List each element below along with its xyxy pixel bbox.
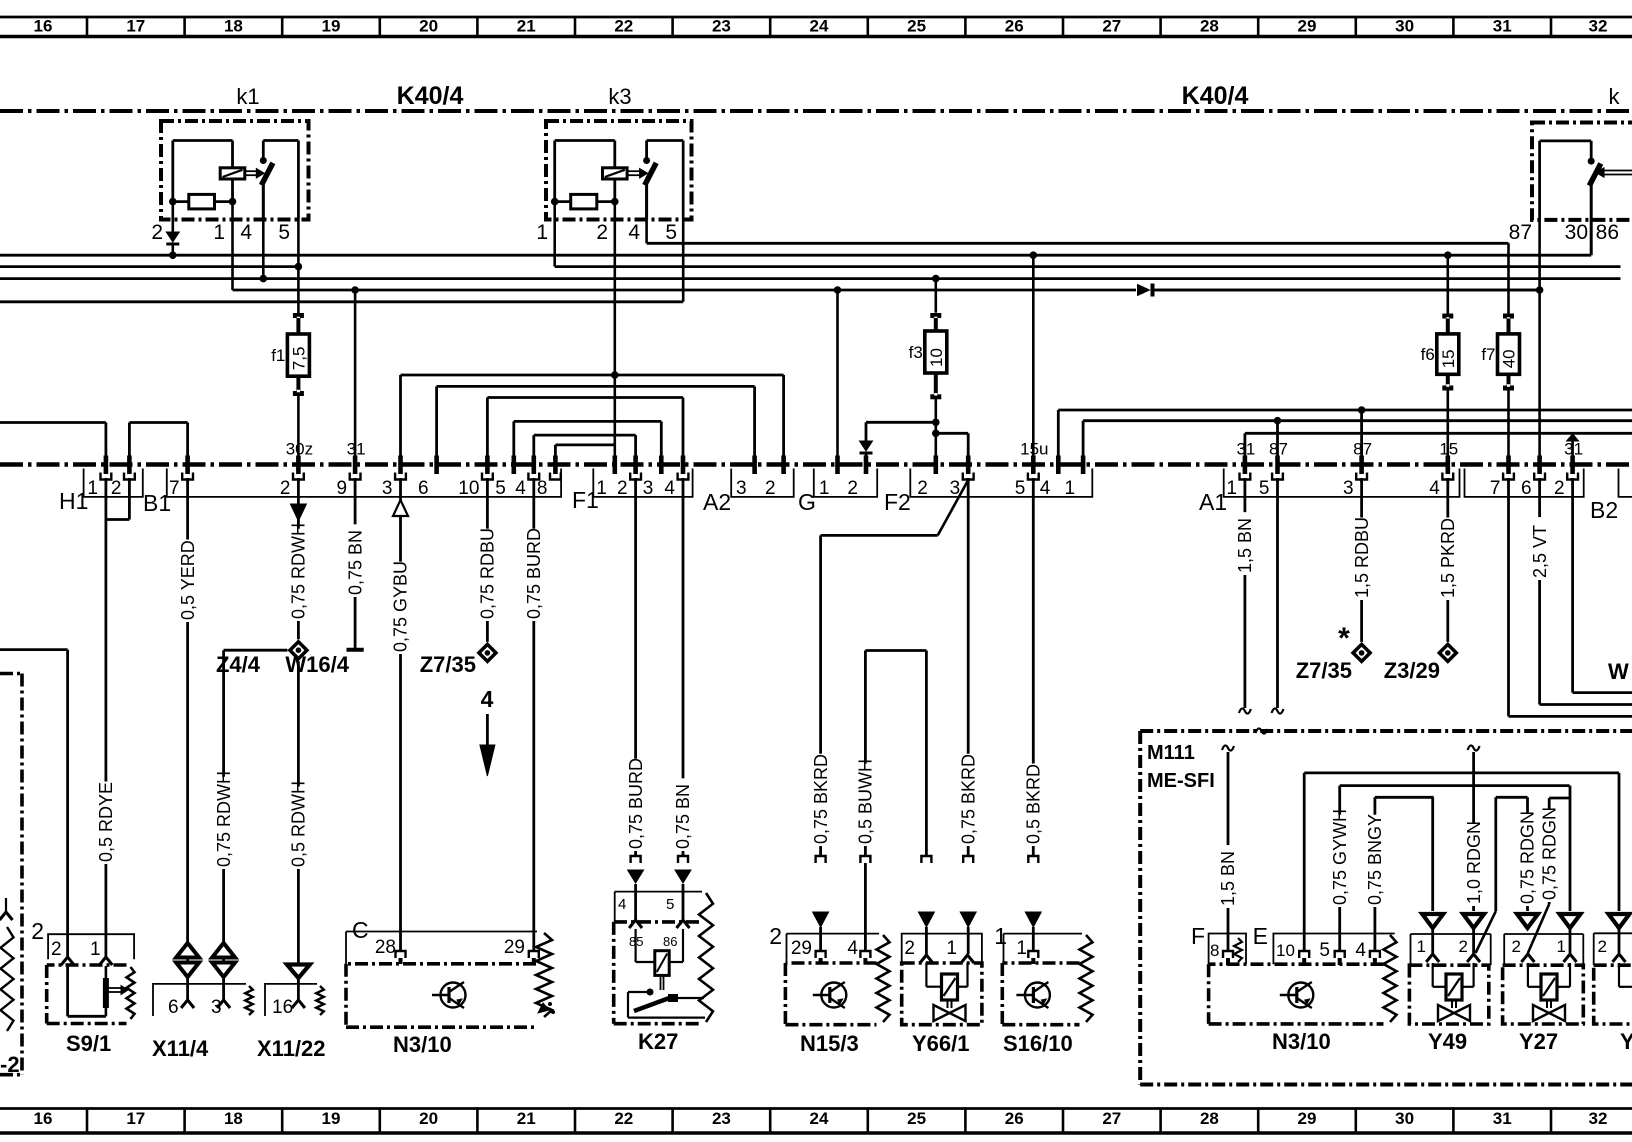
svg-text:B1: B1 [143, 490, 171, 516]
svg-text:H1: H1 [59, 488, 88, 514]
svg-text:4: 4 [618, 896, 626, 913]
svg-text:24: 24 [810, 17, 829, 36]
svg-text:S9/1: S9/1 [66, 1031, 111, 1056]
svg-text:15: 15 [1439, 349, 1458, 368]
svg-text:2: 2 [904, 938, 915, 959]
svg-text:30: 30 [1395, 17, 1414, 36]
svg-text:2: 2 [1554, 478, 1565, 499]
svg-text:0,5 RDWH: 0,5 RDWH [289, 781, 309, 867]
svg-text:1: 1 [1417, 937, 1426, 956]
svg-text:20: 20 [419, 17, 438, 36]
svg-text:3: 3 [382, 478, 393, 499]
svg-text:F2: F2 [884, 489, 911, 515]
svg-text:16: 16 [272, 997, 293, 1018]
svg-text:0,5 BUWH: 0,5 BUWH [856, 759, 876, 844]
svg-text:0,75 BNGY: 0,75 BNGY [1365, 814, 1385, 905]
svg-text:N3/10: N3/10 [393, 1032, 452, 1057]
svg-text:1: 1 [213, 221, 225, 244]
svg-text:7: 7 [1490, 478, 1501, 499]
svg-text:5: 5 [1259, 478, 1270, 499]
svg-text:4: 4 [847, 938, 858, 959]
svg-text:1: 1 [819, 478, 830, 499]
svg-text:10: 10 [458, 478, 479, 499]
svg-text:Z3/29: Z3/29 [1384, 658, 1440, 683]
svg-text:Y: Y [1620, 1029, 1632, 1054]
svg-text:5: 5 [1015, 478, 1026, 499]
svg-text:6: 6 [168, 997, 179, 1018]
svg-text:3: 3 [736, 478, 747, 499]
svg-text:3: 3 [643, 478, 654, 499]
svg-text:2: 2 [917, 478, 928, 499]
svg-text:1: 1 [536, 221, 548, 244]
svg-text:25: 25 [907, 17, 926, 36]
svg-text:2,5 VT: 2,5 VT [1530, 525, 1550, 578]
svg-text:22: 22 [614, 17, 633, 36]
svg-text:Y49: Y49 [1428, 1029, 1467, 1054]
svg-text:k1: k1 [236, 84, 259, 109]
svg-text:*: * [1338, 622, 1350, 655]
svg-text:21: 21 [517, 1109, 536, 1128]
svg-text:K40/4: K40/4 [1182, 82, 1249, 110]
svg-text:8: 8 [537, 478, 548, 499]
svg-text:2: 2 [847, 478, 858, 499]
svg-text:5: 5 [495, 478, 506, 499]
svg-text:K40/4: K40/4 [397, 82, 464, 110]
svg-text:A2: A2 [703, 489, 731, 515]
svg-text:0,75 GYWH: 0,75 GYWH [1330, 809, 1350, 905]
svg-text:F1: F1 [572, 487, 599, 513]
svg-text:0,75 RDGN: 0,75 RDGN [1539, 807, 1559, 900]
svg-text:32: 32 [1589, 17, 1608, 36]
svg-text:17: 17 [126, 1109, 145, 1128]
svg-text:N15/3: N15/3 [800, 1031, 859, 1056]
svg-text:4: 4 [1040, 478, 1051, 499]
svg-text:Y27: Y27 [1519, 1029, 1558, 1054]
svg-text:Z7/35: Z7/35 [1296, 658, 1352, 683]
svg-text:86: 86 [663, 934, 677, 949]
svg-text:2: 2 [1598, 937, 1607, 956]
svg-text:K27: K27 [638, 1029, 678, 1054]
svg-text:2: 2 [111, 478, 122, 499]
svg-text:19: 19 [322, 17, 341, 36]
svg-text:5: 5 [665, 221, 677, 244]
svg-text:1: 1 [1557, 937, 1566, 956]
svg-text:0,75 RDWH: 0,75 RDWH [289, 523, 309, 619]
svg-text:G: G [798, 489, 816, 515]
svg-text:1,5 BN: 1,5 BN [1235, 518, 1255, 573]
svg-text:2: 2 [31, 918, 44, 944]
svg-text:1: 1 [994, 923, 1007, 949]
svg-text:0,75 GYBU: 0,75 GYBU [391, 561, 411, 652]
svg-text:0,75 BURD: 0,75 BURD [626, 758, 646, 849]
svg-text:4: 4 [664, 478, 675, 499]
svg-text:28: 28 [375, 937, 396, 958]
svg-text:4: 4 [240, 221, 252, 244]
svg-text:31: 31 [1493, 17, 1512, 36]
svg-text:N3/10: N3/10 [1272, 1029, 1331, 1054]
svg-text:32: 32 [1589, 1109, 1608, 1128]
svg-text:0,75 BKRD: 0,75 BKRD [811, 754, 831, 844]
svg-text:22: 22 [614, 1109, 633, 1128]
svg-text:Z4/4: Z4/4 [216, 652, 261, 677]
svg-text:29: 29 [1298, 17, 1317, 36]
svg-text:23: 23 [712, 17, 731, 36]
svg-text:M111: M111 [1147, 742, 1195, 764]
svg-text:0,5 BKRD: 0,5 BKRD [1024, 764, 1044, 844]
svg-text:X11/4: X11/4 [152, 1036, 209, 1061]
svg-text:2: 2 [596, 221, 608, 244]
svg-text:0,75 BN: 0,75 BN [673, 784, 693, 849]
svg-text:5: 5 [666, 896, 674, 913]
svg-text:0,75 RDWH: 0,75 RDWH [214, 771, 234, 867]
svg-text:30: 30 [1395, 1109, 1414, 1128]
svg-text:86: 86 [1596, 221, 1619, 244]
svg-text:28: 28 [1200, 1109, 1219, 1128]
svg-text:1: 1 [87, 478, 98, 499]
svg-text:k3: k3 [608, 84, 631, 109]
svg-text:4: 4 [628, 221, 640, 244]
svg-text:1,0 RDGN: 1,0 RDGN [1464, 821, 1484, 904]
svg-text:24: 24 [810, 1109, 829, 1128]
svg-text:A1: A1 [1199, 489, 1227, 515]
svg-text:0,5 RDYE: 0,5 RDYE [96, 782, 116, 862]
svg-text:0,75 BURD: 0,75 BURD [524, 528, 544, 619]
svg-text:Z7/35: Z7/35 [420, 652, 476, 677]
svg-text:87: 87 [1509, 221, 1532, 244]
svg-text:5: 5 [1319, 940, 1330, 961]
svg-text:2: 2 [1512, 937, 1521, 956]
svg-text:1: 1 [1065, 478, 1076, 499]
svg-text:-2: -2 [0, 1052, 20, 1077]
svg-text:0,75 RDBU: 0,75 RDBU [478, 528, 498, 619]
svg-text:40: 40 [1500, 349, 1519, 368]
svg-text:6: 6 [1521, 478, 1532, 499]
svg-text:1,5 PKRD: 1,5 PKRD [1438, 518, 1458, 598]
svg-text:S16/10: S16/10 [1003, 1031, 1073, 1056]
svg-text:26: 26 [1005, 17, 1024, 36]
svg-text:f1: f1 [271, 346, 285, 365]
svg-text:1,5 RDBU: 1,5 RDBU [1352, 517, 1372, 598]
svg-text:7,5: 7,5 [289, 347, 308, 371]
svg-text:26: 26 [1005, 1109, 1024, 1128]
svg-text:5: 5 [278, 221, 290, 244]
svg-text:1,5 BN: 1,5 BN [1218, 851, 1238, 906]
svg-text:1: 1 [1016, 938, 1027, 959]
svg-text:4: 4 [481, 686, 494, 712]
svg-text:2: 2 [617, 478, 628, 499]
svg-text:3: 3 [211, 997, 222, 1018]
svg-text:4: 4 [1355, 940, 1366, 961]
svg-text:f6: f6 [1421, 345, 1435, 364]
svg-text:16: 16 [34, 1109, 53, 1128]
svg-text:29: 29 [791, 938, 812, 959]
svg-text:20: 20 [419, 1109, 438, 1128]
svg-text:1: 1 [946, 938, 957, 959]
svg-text:2: 2 [1459, 937, 1468, 956]
svg-text:0,75 RDGN: 0,75 RDGN [1518, 811, 1538, 904]
svg-text:29: 29 [1298, 1109, 1317, 1128]
svg-text:21: 21 [517, 17, 536, 36]
svg-text:2: 2 [151, 221, 163, 244]
svg-text:17: 17 [126, 17, 145, 36]
svg-text:E: E [1253, 923, 1268, 949]
svg-text:19: 19 [322, 1109, 341, 1128]
svg-text:28: 28 [1200, 17, 1219, 36]
svg-text:0,5 YERD: 0,5 YERD [178, 540, 198, 620]
svg-text:k: k [1609, 84, 1621, 109]
svg-text:25: 25 [907, 1109, 926, 1128]
svg-text:2: 2 [51, 939, 62, 960]
svg-text:C: C [352, 917, 369, 943]
svg-text:2: 2 [280, 478, 291, 499]
svg-text:3: 3 [1343, 478, 1354, 499]
svg-text:W: W [1608, 659, 1629, 684]
svg-text:23: 23 [712, 1109, 731, 1128]
svg-text:1: 1 [1226, 478, 1237, 499]
svg-text:30: 30 [1565, 221, 1588, 244]
svg-text:1: 1 [90, 939, 101, 960]
svg-text:31: 31 [1493, 1109, 1512, 1128]
svg-text:Y66/1: Y66/1 [912, 1031, 970, 1056]
svg-text:10: 10 [927, 348, 946, 367]
svg-text:f3: f3 [909, 343, 923, 362]
svg-text:4: 4 [1429, 478, 1440, 499]
svg-text:2: 2 [765, 478, 776, 499]
svg-text:f7: f7 [1481, 345, 1495, 364]
svg-text:X11/22: X11/22 [257, 1036, 326, 1061]
svg-text:6: 6 [418, 478, 429, 499]
svg-text:0,75 BN: 0,75 BN [345, 530, 365, 595]
svg-text:B2: B2 [1590, 497, 1618, 523]
svg-text:4: 4 [515, 478, 526, 499]
svg-text:W16/4: W16/4 [285, 652, 349, 677]
svg-text:10: 10 [1276, 941, 1295, 960]
svg-text:16: 16 [34, 17, 53, 36]
svg-text:29: 29 [504, 937, 525, 958]
svg-text:0,75 BKRD: 0,75 BKRD [958, 754, 978, 844]
svg-text:9: 9 [337, 478, 348, 499]
svg-text:18: 18 [224, 17, 243, 36]
svg-text:2: 2 [769, 923, 782, 949]
svg-text:8: 8 [1210, 941, 1219, 960]
svg-text:18: 18 [224, 1109, 243, 1128]
svg-text:27: 27 [1102, 17, 1121, 36]
svg-text:F: F [1191, 923, 1205, 949]
svg-text:27: 27 [1102, 1109, 1121, 1128]
svg-text:ME-SFI: ME-SFI [1147, 770, 1215, 792]
